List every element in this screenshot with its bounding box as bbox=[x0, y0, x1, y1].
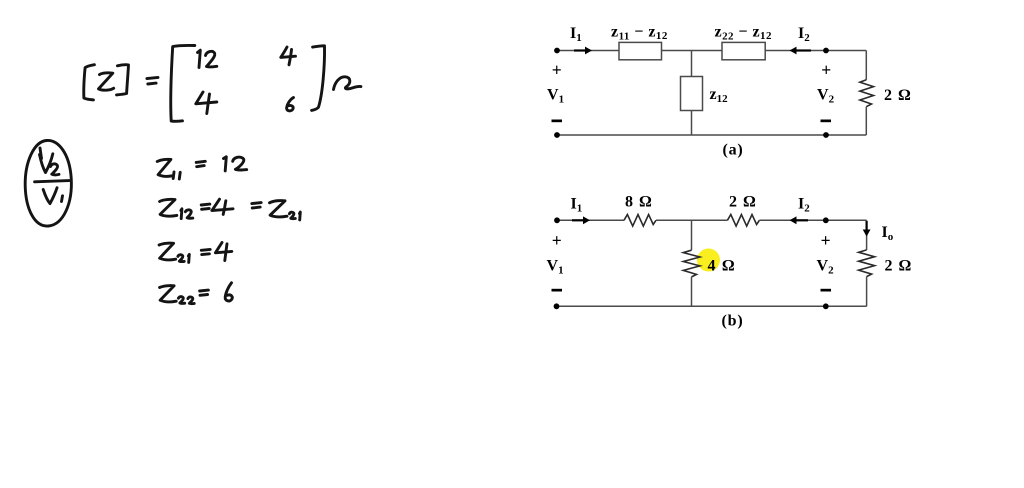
wire right vertical bottom (b) bbox=[866, 277, 868, 307]
terminal dot bottom-left (a) bbox=[554, 132, 560, 138]
matrix entry 4 (row2 col1) bbox=[196, 92, 217, 104]
current arrow I2 (b) bbox=[796, 219, 808, 221]
circled fraction oval bbox=[25, 140, 71, 226]
equation line Z21 = 4 bbox=[159, 243, 176, 260]
svg-text:2 Ω: 2 Ω bbox=[729, 194, 757, 211]
impedance box z12 (shunt) bbox=[681, 77, 703, 111]
svg-text:4 Ω: 4 Ω bbox=[708, 258, 736, 275]
svg-text:2 Ω: 2 Ω bbox=[885, 258, 913, 275]
equation line Z22 = 6 bbox=[160, 286, 177, 302]
current arrow I1 (a) bbox=[574, 49, 586, 51]
resistor 4 ohm zigzag (b) bbox=[683, 250, 700, 277]
wire right vertical bottom (a) bbox=[865, 107, 867, 135]
wire middle stub to z12 box (a) bbox=[691, 51, 693, 77]
terminal dot bottom-left (b) bbox=[554, 303, 560, 309]
wire between 8 ohm and 2 ohm (b) bbox=[656, 219, 727, 221]
wire 4 ohm to bottom (b) bbox=[691, 277, 693, 306]
handwritten omega after matrix bbox=[334, 77, 361, 90]
svg-text:(a): (a) bbox=[723, 142, 744, 159]
wire top-right segment (a) bbox=[765, 50, 866, 52]
handwritten bracket [ of [Z] bbox=[84, 65, 95, 100]
equation line Z11 = 12 bbox=[157, 159, 172, 176]
node dot top-right (b) bbox=[823, 217, 829, 223]
wire z12 box to bottom (a) bbox=[691, 111, 693, 136]
wire top-left segment (a) bbox=[557, 50, 619, 52]
matrix entry 4 (row1 col2) bbox=[281, 47, 296, 57]
resistor 2 ohm load zigzag (b) bbox=[859, 250, 875, 277]
wire bottom (a) bbox=[557, 134, 866, 136]
impedance box z22-z12 bbox=[722, 42, 765, 59]
fraction numerator V2 with bar bbox=[40, 148, 42, 159]
resistor 2 ohm series zigzag (b) bbox=[727, 215, 759, 227]
wire middle stub to 4 ohm (b) bbox=[691, 220, 693, 250]
label minus V2 (b) bbox=[821, 289, 832, 292]
matrix entry 12 (row1 col1) bbox=[198, 50, 201, 67]
node dot bottom-right (a) bbox=[823, 132, 829, 138]
yellow highlight blob bbox=[697, 249, 720, 272]
matrix right bracket bbox=[312, 46, 325, 111]
svg-text:2 Ω: 2 Ω bbox=[884, 87, 912, 104]
svg-text:8 Ω: 8 Ω bbox=[625, 194, 653, 211]
terminal dot top-left (a) bbox=[554, 48, 560, 54]
wire right vertical top (a) bbox=[865, 51, 867, 80]
resistor 2 ohm zigzag (a) bbox=[860, 80, 874, 107]
svg-text:+: + bbox=[552, 60, 562, 80]
wire top-right segment (b) bbox=[759, 219, 866, 221]
label minus V2 (a) bbox=[821, 120, 832, 123]
wire top-left segment (b) bbox=[557, 219, 624, 221]
resistor 8 ohm zigzag (b) bbox=[624, 215, 656, 227]
label minus V1 (a) bbox=[552, 120, 563, 123]
wire between boxes (a) bbox=[662, 50, 723, 52]
matrix entry 6 (row2 col2) bbox=[287, 98, 294, 111]
handwritten letter Z of [Z] bbox=[99, 73, 114, 90]
equation line Z12 = 4 = Z21 bbox=[160, 199, 177, 216]
svg-text:(b): (b) bbox=[722, 313, 744, 330]
node dot top-right (a) bbox=[823, 48, 829, 54]
fraction bar bbox=[35, 181, 70, 182]
current arrow I2 (a) bbox=[796, 49, 811, 51]
handwritten equals after [Z] bbox=[147, 77, 158, 78]
handwritten bracket ] of [Z] bbox=[117, 65, 129, 95]
node dot bottom-right (b) bbox=[823, 303, 829, 309]
current arrow I1 (b) bbox=[572, 219, 584, 221]
label minus V1 (b) bbox=[552, 289, 563, 292]
svg-text:+: + bbox=[552, 231, 562, 251]
terminal dot top-left (b) bbox=[554, 217, 560, 223]
wire right vertical top (b) bbox=[866, 220, 868, 250]
svg-text:+: + bbox=[821, 231, 831, 251]
fraction denominator V1 bbox=[43, 188, 57, 204]
svg-text:+: + bbox=[821, 60, 831, 80]
wire bottom (b) bbox=[557, 305, 867, 307]
matrix left bracket bbox=[171, 45, 195, 121]
impedance box z11-z12 bbox=[619, 42, 662, 59]
current arrow Io (b) bbox=[866, 221, 868, 230]
